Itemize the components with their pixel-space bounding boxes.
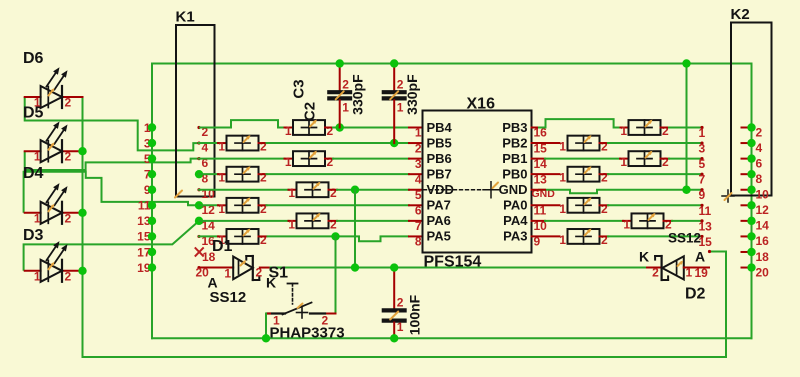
IC pin 8 number [415,235,422,249]
K2 pin 14 stub [742,220,752,222]
resistor R-VDD pin number 2 [330,186,337,200]
K1 pin 13 number [137,214,151,228]
svg-text:X16: X16 [467,96,496,113]
resistor R-PB6 pin number 1 [285,155,292,169]
R row6 stub right [329,220,338,222]
label C2 [302,102,319,121]
svg-text:8: 8 [756,172,763,186]
resistor R-PA3 pin number 2 [601,233,608,247]
node C3/PB4 junction [336,123,344,131]
K1 pin 2 number [202,125,209,139]
K1 pin 10 number [202,187,216,201]
svg-text:19: 19 [695,266,709,280]
IC pin name PB6 [427,151,452,166]
IC right stub row7 [532,235,560,237]
connector K1 [176,25,215,197]
capacitor C3 pin number 2 [342,78,349,92]
wire resistor R-PB1 to K2 pin 5 [669,158,702,160]
K2 pin 2 stub [742,127,752,129]
LED D5 wire stub pin1 [25,150,41,152]
IC pin name PB7 [427,166,452,181]
label D2 K [639,249,649,265]
diode D2 stub left [647,267,662,269]
LED D5 wire stub pin2 [62,150,83,152]
pin number 1 of D4 [34,211,41,225]
K1 pin 19 junction [148,263,156,271]
svg-text:5: 5 [415,188,422,202]
K2 pin 13 number [699,219,713,233]
svg-text:A: A [695,249,705,265]
svg-text:1: 1 [218,140,225,154]
capacitor C1 stub top [393,268,395,309]
wire VDD branch down [354,190,356,268]
wire R row4 to IC pin 5 VDD [337,189,409,191]
svg-text:PB2: PB2 [502,135,527,150]
IC pin name PB1 [502,151,527,166]
svg-text:100nF: 100nF [407,294,423,335]
svg-text:11: 11 [699,204,712,218]
IC pin 6 stub [409,204,423,206]
label C3 [291,79,308,98]
resistor R-PB7 [227,166,259,182]
resistor R-PA3 stub right [600,235,609,237]
wire R row2 to IC pin 3 [333,158,409,160]
svg-text:1: 1 [285,124,292,138]
node D3 pin2 junction [78,267,86,275]
resistor R-PB4 [293,120,325,136]
IC pin 16 number [534,126,548,140]
K2 pin 18 stub [742,251,752,253]
K1 pin 3 junction [148,139,156,147]
wire R row7 to IC pin 8 (dip) [267,236,410,241]
resistor R-PA7 pin number 1 [218,202,225,216]
label D4 [23,165,44,182]
LED D5 [41,122,68,163]
IC pin name PB3 [502,120,527,135]
IC pin 9 number [534,235,541,249]
K2 pin 15 tip [700,235,703,238]
svg-text:D5: D5 [23,105,44,122]
resistor R-PB1 pin number 2 [662,155,669,169]
svg-text:6: 6 [415,204,422,218]
resistor R-PB6 [293,151,325,167]
svg-text:2: 2 [65,150,72,164]
svg-text:2: 2 [65,269,72,283]
svg-text:2: 2 [601,140,608,154]
LED D6 [41,67,68,108]
K1 pin 3 number [144,136,151,150]
resistor R-PA4 stub right [664,220,673,222]
resistor R-PA3 pin number 1 [559,233,566,247]
K2 pin 4 number [756,141,763,155]
label X16 [467,96,496,113]
R row7 stub left [218,235,227,237]
resistor R-PA0 pin number 2 [601,202,608,216]
IC pin 8 stub [409,235,423,237]
K2 pin 13 tip [700,219,703,222]
IC pin 10 number [534,219,548,233]
IC right stub row3 [532,173,560,175]
label D1 [212,238,233,255]
svg-text:2: 2 [397,296,404,310]
svg-text:D2: D2 [685,286,706,303]
svg-text:2: 2 [260,233,267,247]
K2 pin 9 number [699,188,706,202]
svg-text:2: 2 [415,141,422,155]
svg-text:GND: GND [499,182,528,197]
diode D1 [233,256,259,280]
svg-text:2: 2 [662,155,669,169]
K2 pin 10 junction [747,186,755,194]
svg-text:7: 7 [699,173,706,187]
pin number 2 of D5 [65,150,72,164]
wire S1 pin2 stub [325,313,336,315]
value 330pF of C3 [350,74,366,115]
K2 pin 14 number [756,219,770,233]
K1 pin 20 number [196,266,210,280]
K1 pin 7 number [144,167,151,181]
K1 origin mark [175,191,182,198]
K2 pin 4 stub [742,142,752,144]
svg-text:D4: D4 [23,165,44,182]
resistor R-PB4 pin number 2 [327,124,334,138]
capacitor C2 pin number 2 [397,78,404,92]
K2 pin 6 number [756,156,763,170]
svg-text:D1: D1 [212,238,233,255]
K2 pin 15 number [699,235,713,249]
resistor R-PB2 pin number 2 [601,140,608,154]
node VDD junction [351,186,359,194]
K2 pin 5 number [699,157,706,171]
svg-text:1: 1 [34,211,41,225]
K1 pin 2 tip [197,126,200,129]
IC pin 7 number [415,219,422,233]
node C2 top junction [390,59,398,67]
K1 pin 17 junction [148,248,156,256]
svg-text:PB3: PB3 [502,120,527,135]
node S1/bottom junction [262,334,270,342]
R row1 stub left [218,142,227,144]
K2 pin 20 number [756,265,770,279]
node C2/PB5 junction [390,139,398,147]
IC pin 16 stub [532,127,546,129]
pin number 1 of D6 [34,96,41,110]
resistor R-PB3 [629,120,661,136]
wire R row3 to IC pin 4 [267,173,410,175]
svg-text:7: 7 [415,219,422,233]
K1 pin 18 number [202,250,216,264]
capacitor C2 pin number 1 [397,101,404,115]
svg-text:330pF: 330pF [350,74,366,115]
wire resistor R-PB0 to K2 pin 7 [608,173,702,175]
capacitor C3 plates [327,91,352,99]
svg-text:K: K [639,249,649,265]
connector K2 [731,23,772,196]
capacitor C1 pin number 2 [397,296,404,310]
wire GND drop to IC GND row [686,64,688,190]
IC pin 3 stub [409,158,423,160]
pin number 1 of D3 [34,269,41,283]
LED D6 wire stub pin2 [62,96,83,98]
K2 pin 20 junction [747,263,755,271]
R row4 stub left [289,189,297,191]
wire IC pin16 to R r0 (bump) [538,119,621,127]
K2 pin 1 number [699,126,706,140]
wire resistor R-PA0 to K2 pin 11 [608,204,702,206]
resistor R-PB4 pin number 1 [285,124,292,138]
svg-text:18: 18 [756,250,770,264]
svg-text:PA0: PA0 [503,198,527,213]
svg-text:6: 6 [756,156,763,170]
svg-text:16: 16 [756,234,770,248]
IC pin 2 number [415,141,422,155]
resistor R-PB1 stub left [620,158,629,160]
svg-text:1: 1 [288,217,295,231]
IC pin 13 number [534,172,548,186]
wire K1 pin 2 to R row0 (bump) [199,120,285,127]
IC pin 7 stub [409,220,423,222]
IC right stub row6 [532,220,546,222]
svg-text:1: 1 [34,150,41,164]
wire R row6 to IC pin 7 [337,220,409,222]
svg-text:1: 1 [620,155,627,169]
LED D4 [41,183,68,224]
svg-text:1: 1 [342,101,349,115]
IC pin name PA0 [503,198,527,213]
svg-text:2: 2 [260,171,267,185]
wire IC to resistor R-PA4 [545,220,623,222]
IC pin 1 number [415,126,422,140]
IC pin name PB5 [427,135,452,150]
switch S1 [267,284,325,319]
svg-text:C2: C2 [302,102,319,121]
K1 pin 15 junction [148,232,156,240]
svg-text:2: 2 [662,124,669,138]
wire resistor R-PA3 to K2 pin 15 [608,235,702,237]
K2 pin 14 junction [747,217,755,225]
resistor R-PA6 pin number 1 [288,217,295,231]
K1 pin 11 junction [148,201,156,209]
resistor R-PB0 stub right [600,173,609,175]
wire PA5 branch down to S1 pin2 [335,236,337,313]
R row2 stub left [285,158,294,160]
svg-text:2: 2 [601,233,608,247]
svg-text:2: 2 [65,96,72,110]
IC pin name PB4 [427,120,453,135]
capacitor C2 stub top [393,64,395,91]
svg-text:2: 2 [327,155,334,169]
wire bottom net to K2 pin 17 [83,252,727,358]
resistor R-PB2 pin number 1 [559,140,566,154]
svg-text:PB4: PB4 [427,120,453,135]
capacitor C1 stub bottom [393,323,395,339]
K2 origin mark [722,190,734,202]
resistor R-PB0 [568,166,600,182]
IC pin name PA7 [427,198,451,213]
K2 pin 8 number [756,172,763,186]
resistor R-PA5 pin number 2 [260,233,267,247]
K1 pin 8 number [202,172,209,186]
resistor R-PB1 [629,151,661,167]
IC pin name PA3 [503,229,527,244]
resistor R-PB1 pin number 1 [620,155,627,169]
K1 pin 14 junction [195,217,203,225]
R row5 stub right [259,204,267,206]
resistor R-PB6 pin number 2 [327,155,334,169]
wire R row5 to IC pin 6 [267,204,410,206]
K2 pin 6 stub [742,158,752,160]
svg-text:D6: D6 [23,50,44,67]
svg-text:1: 1 [285,155,292,169]
wire IC GND to K2 pin 9 (dip) [538,190,702,194]
resistor R-PA0 [568,197,600,213]
svg-text:2: 2 [342,78,349,92]
svg-text:D3: D3 [23,227,44,244]
resistor R-PA6 pin number 2 [330,217,337,231]
svg-text:PA5: PA5 [427,229,451,244]
svg-text:1: 1 [397,320,404,334]
IC pin name PB0 [502,166,527,181]
IC right stub row2 [532,158,546,160]
K2 pin 18 number [756,250,770,264]
label D1 K [266,275,276,291]
svg-text:2: 2 [330,217,337,231]
node D4 pin2 junction [78,209,86,217]
svg-text:PHAP3373: PHAP3373 [270,325,345,342]
label S1 [269,265,289,282]
value 330pF of C2 [404,74,420,115]
svg-text:1: 1 [699,126,706,140]
label K1 [176,9,195,26]
K1 pin 7 junction [148,170,156,178]
IC pin 6 number [415,204,422,218]
wire K2 even-pin bus [751,64,753,339]
wire Rr0 to K2 pin 1 [669,127,702,129]
svg-text:PA6: PA6 [427,213,451,228]
label D2 [685,286,706,303]
capacitor C3 stub top [339,64,341,91]
svg-text:1: 1 [620,124,627,138]
K2 pin 3 number [699,142,706,156]
resistor R-PB3 pin number 1 [620,124,627,138]
K2 pin 1 tip [700,126,703,129]
wire K1 odd-pin bus [151,64,153,339]
K1 pin 12 junction [195,201,203,209]
S1 pin 1 stub [266,313,270,315]
node C3 top junction [336,59,344,67]
resistor R-PA0 stub right [600,204,609,206]
resistor R-PB7 pin number 1 [218,171,225,185]
IC origin mark with dashed leader [424,182,500,198]
svg-text:12: 12 [756,203,770,217]
IC GND stub [532,189,546,191]
K2 pin 2 number [756,125,763,139]
wire K1 pin 10 to R row4 [199,189,289,191]
resistor R-VDD [297,182,329,198]
K1 pin 17 number [137,245,151,259]
resistor R-PA4 [632,213,664,229]
wire D6 pin1 to K1 pin 4 [25,97,199,150]
R row0 stub right [325,127,333,129]
op-amp ic X16 PFS154 body [423,111,532,253]
pin number 1 of D5 [34,150,41,164]
value SS12 of D2 [668,231,701,246]
svg-text:8: 8 [415,235,422,249]
svg-text:1: 1 [559,171,566,185]
R row4 stub right [329,189,338,191]
svg-text:PB1: PB1 [502,151,527,166]
K2 pin 3 tip [700,141,703,144]
resistor R-PB1 stub right [661,158,670,160]
wire R row0 to IC pin 1 [333,127,409,129]
K2 pin 9 tip [700,188,703,191]
svg-text:K2: K2 [731,6,750,23]
K1 pin 19 number [137,261,151,275]
svg-text:1: 1 [288,186,295,200]
K1 pin 14 number [202,218,216,232]
wire D5 pin1 to K1 pin 6 [25,151,199,170]
R row3 stub right [259,173,267,175]
node GND right junction [682,186,690,194]
wire K1 pin 14 to R row6 [199,220,289,222]
K2 pin 16 junction [747,232,755,240]
K2 pin 6 junction [747,154,755,162]
svg-text:1: 1 [224,267,231,281]
K2 pin 16 number [756,234,770,248]
svg-text:5: 5 [699,157,706,171]
label PFS154 [424,254,482,271]
label D6 [23,50,44,67]
value PHAP3373 of S1 [270,325,345,342]
wire D1 to mid net [260,267,271,269]
K1 pin 6 number [202,156,209,170]
K2 pin 10 stub [742,189,752,191]
resistor R-PA3 [568,228,600,244]
svg-text:2: 2 [652,266,659,280]
resistor R-PA7 [227,197,259,213]
label D5 [23,105,44,122]
wire K1 pin 4 to R row1 [199,142,218,144]
wire D3 pin1 to K1 pin 14 (diagonal) [24,221,199,271]
net label GND [532,188,556,200]
pin number 2 of D3 [65,269,72,283]
svg-text:2: 2 [397,78,404,92]
IC pin name GND [499,182,528,197]
svg-text:SS12: SS12 [210,289,247,306]
K2 pin 7 tip [700,173,703,176]
label K2 [731,6,750,23]
K1 pin 9 number [144,183,151,197]
diode D2 stub right to K2 pin 19 [684,267,709,269]
svg-text:2: 2 [260,140,267,154]
IC right stub row1 [532,142,560,144]
K1 pin 13 junction [148,217,156,225]
K2 pin 7 number [699,173,706,187]
resistor R-PA4 pin number 2 [665,217,672,231]
capacitor C3 pin number 1 [342,101,349,115]
LED D3 wire stub pin2 [62,270,83,272]
diode D2 [655,256,684,280]
resistor R-PA5 pin number 1 [218,233,225,247]
node S1 branch junction [331,232,339,240]
svg-text:S1: S1 [269,265,289,282]
node GND top right junction [682,59,690,67]
svg-text:3: 3 [699,142,706,156]
capacitor C1 pin number 1 [397,320,404,334]
svg-text:PA4: PA4 [503,213,528,228]
wire resistor R-PB2 to K2 pin 3 [608,142,702,144]
wire K1 pin 12 to R row5 [199,204,218,206]
